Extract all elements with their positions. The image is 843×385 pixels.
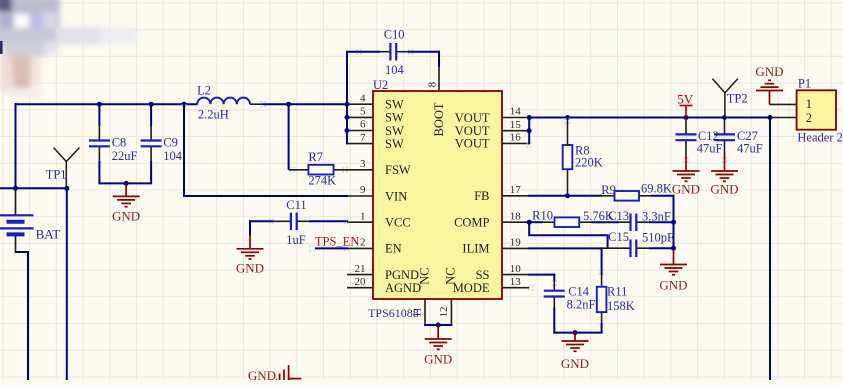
svg-text:2: 2 [806, 111, 812, 125]
wire R7 vertical [288, 103, 290, 170]
ground R9C13C15 [660, 265, 687, 275]
svg-text:R7: R7 [308, 150, 323, 164]
ground C12 [673, 171, 700, 181]
pin 19 ILIM [502, 247, 529, 249]
ground stem C14R11 [574, 333, 576, 341]
capacitor C9 plates [141, 141, 162, 147]
wire C8-C9 bottom [98, 182, 152, 184]
svg-text:C27: C27 [737, 129, 758, 143]
svg-text:5V: 5V [677, 92, 694, 107]
ground stem C11 [249, 235, 251, 249]
wire R11 bottom [601, 323, 603, 334]
svg-text:SW: SW [385, 137, 404, 151]
junction SS gnd [573, 330, 578, 335]
resistor R8 leads [567, 119, 569, 146]
wire FB [528, 195, 602, 197]
wire battery top horizontal [0, 187, 67, 189]
svg-text:ILIM: ILIM [462, 242, 489, 256]
wire TP1 down [66, 188, 68, 380]
wire input vertical [15, 103, 17, 189]
svg-text:158K: 158K [607, 299, 635, 313]
pin 2 EN [347, 247, 373, 249]
svg-text:VOUT: VOUT [455, 111, 490, 125]
inductor L2 [197, 98, 250, 105]
svg-text:5: 5 [360, 106, 366, 118]
wire C10 right vertical [438, 51, 440, 67]
wire C13 right [649, 221, 675, 223]
pin 17 FB [502, 195, 529, 197]
wire VIN vertical [183, 103, 185, 196]
wire C10 left vertical [346, 52, 348, 105]
svg-text:21: 21 [355, 263, 366, 275]
svg-text:12: 12 [438, 307, 450, 318]
svg-text:1uF: 1uF [286, 233, 306, 247]
svg-text:16: 16 [510, 132, 522, 144]
wire VOUT main [528, 117, 771, 119]
pin 6 SW [347, 130, 373, 132]
ground P1 (inverted) [756, 80, 783, 104]
capacitor C10 leads [378, 51, 390, 53]
pin 3 FSW [347, 169, 373, 171]
resistor R7 [308, 165, 333, 175]
wire input to L2 [15, 103, 198, 105]
wire C11 to VCC [309, 220, 348, 222]
wire SS [528, 274, 555, 276]
svg-text:Header 2: Header 2 [797, 131, 842, 145]
svg-text:19: 19 [510, 237, 522, 249]
svg-text:22uF: 22uF [112, 149, 138, 163]
svg-text:8: 8 [427, 81, 439, 87]
svg-text:SW: SW [385, 111, 404, 125]
ground C11 [237, 249, 264, 259]
svg-text:510pF: 510pF [642, 231, 674, 245]
svg-text:VCC: VCC [385, 216, 411, 230]
capacitor C15 plates [631, 240, 637, 258]
pin 15 VOUT [502, 130, 529, 132]
pin 9 VIN [347, 195, 373, 197]
wire ILIM [528, 247, 601, 249]
svg-text:2: 2 [360, 237, 366, 249]
svg-text:R11: R11 [607, 284, 627, 298]
wire SS down [553, 274, 555, 281]
power port 5V [680, 106, 693, 118]
svg-text:C10: C10 [384, 27, 405, 41]
pin 21 PGND [347, 274, 373, 276]
capacitor C13 leads [618, 221, 631, 223]
svg-text:20: 20 [355, 276, 367, 288]
svg-text:GND: GND [112, 209, 140, 224]
pin 18 COMP [502, 221, 529, 223]
ground stem R9C13C15 [673, 248, 675, 264]
svg-text:AGND: AGND [385, 281, 421, 295]
connector P1 pin 2 [770, 117, 797, 119]
resistor R10 leads [542, 221, 555, 223]
svg-text:MODE: MODE [453, 281, 490, 295]
junction C15 right [671, 246, 676, 251]
capacitor C11 leads [272, 220, 291, 222]
ground stem U2 [437, 325, 439, 339]
capacitor C9 [150, 104, 152, 183]
svg-text:7: 7 [360, 132, 366, 144]
ground C14R11 [562, 341, 589, 351]
ground stem C12 [685, 157, 687, 172]
svg-text:1: 1 [806, 97, 812, 111]
wire SW bus [346, 103, 348, 144]
svg-text:EN: EN [385, 242, 402, 256]
svg-text:69.8K: 69.8K [641, 182, 672, 196]
hotspot marks (faint) [181, 49, 727, 291]
pin 7 SW [347, 143, 373, 145]
capacitor C12 plates [676, 134, 697, 140]
wire R10 to C13 [592, 221, 620, 223]
svg-text:GND: GND [659, 277, 687, 292]
junction P1 [768, 115, 773, 120]
ground U2 [425, 339, 452, 349]
connector P1 body [797, 90, 836, 129]
battery BAT [0, 189, 34, 253]
junction COMP [527, 220, 532, 225]
junction 5V C12 [684, 115, 689, 120]
pin 10 SS [502, 274, 529, 276]
svg-text:FB: FB [474, 189, 489, 203]
wire gnd node vertical [673, 195, 675, 248]
pin 20 AGND [347, 287, 373, 289]
capacitor C11 plates [291, 213, 297, 231]
wire L2 to SW [263, 103, 348, 105]
svg-text:C8: C8 [112, 136, 127, 150]
junction SW pin6 [345, 128, 350, 133]
resistor R10 [555, 217, 580, 227]
svg-text:TP2: TP2 [727, 91, 748, 105]
capacitor C8 [98, 104, 100, 183]
wire C10 right horizontal [408, 51, 440, 53]
junction VOUT pin15 [527, 128, 532, 133]
wire SS-ILIM gnd bottom [553, 332, 602, 334]
svg-text:GND: GND [248, 368, 276, 380]
wire COMP jog to C15 [529, 222, 607, 248]
svg-text:VOUT: VOUT [455, 137, 490, 151]
junction R8 bottom [565, 193, 570, 198]
capacitor C27 plates [714, 134, 735, 140]
svg-text:NC: NC [444, 267, 458, 284]
ground C27 [711, 171, 738, 181]
ground stem C8C9 [125, 183, 127, 196]
junction SW pin4 [345, 102, 350, 107]
svg-text:18: 18 [510, 210, 522, 222]
pin 4 SW [347, 103, 373, 105]
svg-text:SS: SS [476, 268, 490, 282]
svg-text:9: 9 [360, 184, 366, 196]
svg-text:GND: GND [424, 352, 452, 367]
svg-text:11: 11 [412, 307, 424, 318]
blurred logo [0, 0, 138, 98]
wire COMP to R10 [529, 221, 543, 223]
capacitor C10 plates [390, 43, 396, 61]
svg-text:GND: GND [561, 356, 589, 371]
pin 14 VOUT [502, 117, 529, 119]
svg-text:4: 4 [360, 92, 366, 104]
svg-text:C15: C15 [608, 230, 629, 244]
junction C8 top [97, 102, 102, 107]
junction C13 right [671, 220, 676, 225]
svg-text:1: 1 [360, 210, 366, 222]
svg-text:TP1: TP1 [46, 168, 67, 182]
svg-text:FSW: FSW [385, 163, 411, 177]
wire C11 left [249, 220, 273, 222]
svg-text:220K: 220K [575, 156, 603, 170]
pin 1 VCC [347, 221, 373, 223]
capacitor C12 [685, 119, 687, 158]
resistor R11 [597, 287, 607, 312]
svg-text:BAT: BAT [36, 227, 61, 242]
resistor R7 leads [289, 169, 309, 171]
ground stem C27 [724, 157, 726, 172]
svg-text:104: 104 [163, 149, 183, 163]
capacitor C8 plates [89, 141, 110, 147]
svg-text:SW: SW [385, 98, 404, 112]
svg-text:U2: U2 [373, 78, 388, 92]
svg-text:TPS_EN: TPS_EN [315, 234, 359, 248]
junction R8 top [565, 115, 570, 120]
svg-text:47uF: 47uF [737, 142, 763, 156]
svg-text:VIN: VIN [385, 189, 407, 203]
svg-text:.: . [275, 368, 278, 380]
svg-text:BOOT: BOOT [432, 102, 446, 136]
junction C8C9 gnd [124, 181, 129, 186]
wire EN stub [315, 247, 348, 249]
svg-text:3: 3 [360, 158, 366, 170]
test point TP1 [54, 148, 80, 189]
svg-text:47uF: 47uF [697, 142, 723, 156]
svg-text:13: 13 [510, 276, 522, 288]
wire R9 right [651, 195, 675, 197]
wire ILIM down [601, 247, 603, 275]
pin 8 BOOT lead [438, 66, 440, 91]
svg-text:R10: R10 [532, 209, 553, 223]
svg-text:2.2uH: 2.2uH [198, 108, 229, 122]
resistor R8 [563, 145, 573, 169]
svg-text:GND: GND [672, 182, 700, 197]
wire VIN horizontal [183, 195, 348, 197]
wire battery negative 2 [27, 251, 29, 380]
svg-text:14: 14 [510, 106, 522, 118]
svg-text:L2: L2 [197, 83, 211, 97]
svg-text:8.2nF: 8.2nF [567, 298, 596, 312]
junction SW pin5 [345, 115, 350, 120]
test point TP2 [712, 79, 738, 118]
junction battery top [13, 186, 18, 191]
resistor R11 leads [601, 274, 603, 287]
junction TP1 [64, 186, 69, 191]
op-amp U2 TPS61088 body [373, 91, 502, 299]
pin 12 NC [450, 299, 452, 325]
junction C9 top [149, 102, 154, 107]
capacitor C15 leads [601, 247, 631, 249]
wire NC bottom [424, 324, 452, 326]
svg-text:GND: GND [755, 64, 783, 79]
svg-text:COMP: COMP [454, 216, 489, 230]
pin 5 SW [347, 116, 373, 118]
resistor R9 [615, 191, 640, 201]
svg-text:P1: P1 [798, 77, 811, 91]
svg-text:C13: C13 [608, 209, 629, 223]
wire battery negative 1 [16, 251, 30, 253]
svg-text:NC: NC [417, 267, 431, 284]
ground bottom-left (rotated, clipped) [280, 365, 302, 380]
junction R7 tap [286, 102, 291, 107]
junction NC gnd [436, 323, 441, 328]
pin 11 NC [424, 299, 426, 325]
svg-text:104: 104 [385, 63, 405, 77]
capacitor C14 plates [544, 291, 565, 297]
connector P1 pin 1 [770, 103, 797, 105]
svg-text:10: 10 [510, 263, 522, 275]
svg-text:274K: 274K [308, 174, 336, 188]
svg-text:SW: SW [385, 124, 404, 138]
resistor R9 leads [601, 195, 615, 197]
pin 13 MODE [502, 287, 529, 289]
wire C14 bottom [553, 308, 555, 334]
svg-text:17: 17 [510, 184, 522, 196]
junction VOUT pin14 [527, 115, 532, 120]
svg-text:PGND: PGND [385, 268, 419, 282]
svg-text:R9: R9 [601, 183, 616, 197]
svg-text:6: 6 [360, 119, 366, 131]
capacitor C27 [724, 119, 726, 158]
wire C15 right [649, 247, 675, 249]
svg-text:GND: GND [236, 261, 264, 276]
ground C8C9 [113, 196, 140, 206]
wire VOUT bus [528, 117, 530, 145]
pin 16 VOUT [502, 142, 529, 144]
svg-text:C14: C14 [568, 284, 590, 298]
capacitor C13 plates [631, 214, 637, 232]
svg-text:GND: GND [710, 182, 738, 197]
capacitor C14 leads [553, 280, 555, 291]
svg-text:C9: C9 [163, 136, 178, 150]
junction TP2 C27 [722, 115, 727, 120]
wire C11 gnd vertical [249, 220, 251, 236]
junction VIN tap [182, 102, 187, 107]
wire C10 left horizontal [346, 51, 380, 53]
wire VOUT down right [769, 118, 771, 381]
svg-text:C11: C11 [286, 198, 306, 212]
svg-text:15: 15 [510, 119, 522, 131]
